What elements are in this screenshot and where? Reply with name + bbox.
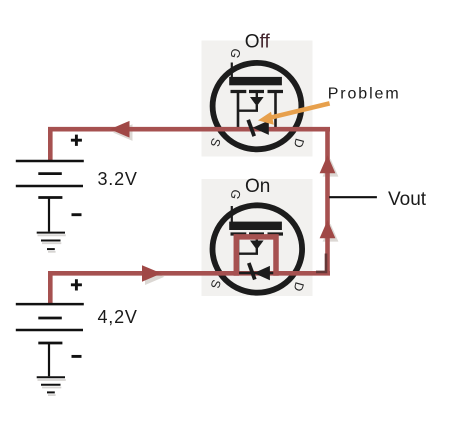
background box Q2 xyxy=(202,179,313,296)
Q1 substrate arrow xyxy=(250,97,264,106)
current arrow left on top rail xyxy=(110,121,130,138)
wire battery B1 positive drop xyxy=(48,127,53,162)
svg-text:Off: Off xyxy=(245,32,271,53)
B1 plate long top xyxy=(16,160,84,163)
ground below B1 xyxy=(38,235,66,252)
svg-text:Problem: Problem xyxy=(328,86,401,103)
Q2 gate bar xyxy=(229,222,282,230)
dark underlying wire fringe at lower corner xyxy=(316,254,326,272)
wire top rail xyxy=(48,127,330,132)
wire right vertical to Vout xyxy=(325,127,330,276)
Q2 source lead xyxy=(237,233,240,274)
wire current path through Q2 channel xyxy=(236,237,276,276)
B2 plate long top xyxy=(16,303,84,306)
transistor Q2 (On) MOSFET symbol xyxy=(208,188,307,293)
B1 plate long xyxy=(16,185,83,188)
B1 plate short xyxy=(38,172,62,175)
Q1 source lead xyxy=(237,90,240,131)
Q2 gate lead xyxy=(231,206,233,222)
Q2 body diode xyxy=(249,263,270,280)
ground below B2 xyxy=(38,380,66,395)
B1 plate short bottom xyxy=(38,196,62,199)
B2 plate short bottom xyxy=(38,342,62,345)
Q2 channel dashes xyxy=(231,232,284,235)
svg-text:4,2V: 4,2V xyxy=(98,307,138,327)
svg-text:On: On xyxy=(245,176,270,197)
current arrow up (upper) on right vertical xyxy=(320,155,336,173)
battery B1 (3.2V) xyxy=(16,135,84,232)
Q2 internal source-drain line xyxy=(236,272,277,275)
svg-text:3.2V: 3.2V xyxy=(98,169,138,189)
svg-text:Vout: Vout xyxy=(388,189,427,210)
Q2 substrate arrow xyxy=(250,241,264,250)
current arrow right on bottom rail xyxy=(142,265,162,282)
Vout tick line xyxy=(329,196,377,198)
Q2 body circle xyxy=(212,205,302,292)
B1 negative lead xyxy=(48,198,50,232)
B2 plate short xyxy=(38,317,62,320)
wire bottom rail xyxy=(48,271,330,276)
Q1 substrate-source tie xyxy=(238,105,257,111)
B2 plate long xyxy=(16,329,83,332)
transistor Q1 (Off) MOSFET symbol xyxy=(207,47,306,149)
battery B2 (4,2V) xyxy=(16,279,84,376)
B1 plus sign xyxy=(71,135,82,146)
Q1 drain lead xyxy=(274,90,277,131)
background box Q1 xyxy=(202,41,313,157)
Q1 gate lead xyxy=(231,63,233,78)
Q2 drain lead xyxy=(274,233,277,274)
Q1 channel dashes xyxy=(231,90,284,93)
B2 negative lead xyxy=(48,343,50,376)
Q2 substrate-source tie xyxy=(238,248,257,254)
current arrow up (lower) on right vertical xyxy=(320,220,336,238)
Q1 body diode xyxy=(248,120,269,136)
Q1 body circle xyxy=(213,63,302,149)
B2 plus sign xyxy=(71,279,82,290)
B1 minus sign xyxy=(72,213,82,216)
Problem callout arrow (orange) xyxy=(258,103,330,124)
Q2 substrate arrow stem xyxy=(256,234,258,241)
Q1 substrate arrow stem xyxy=(256,92,258,98)
wire battery B2 positive drop xyxy=(48,271,53,304)
arrowhead shadows (decorative) xyxy=(113,124,338,285)
B2 minus sign xyxy=(72,355,82,358)
Q1 gate bar xyxy=(229,77,282,85)
